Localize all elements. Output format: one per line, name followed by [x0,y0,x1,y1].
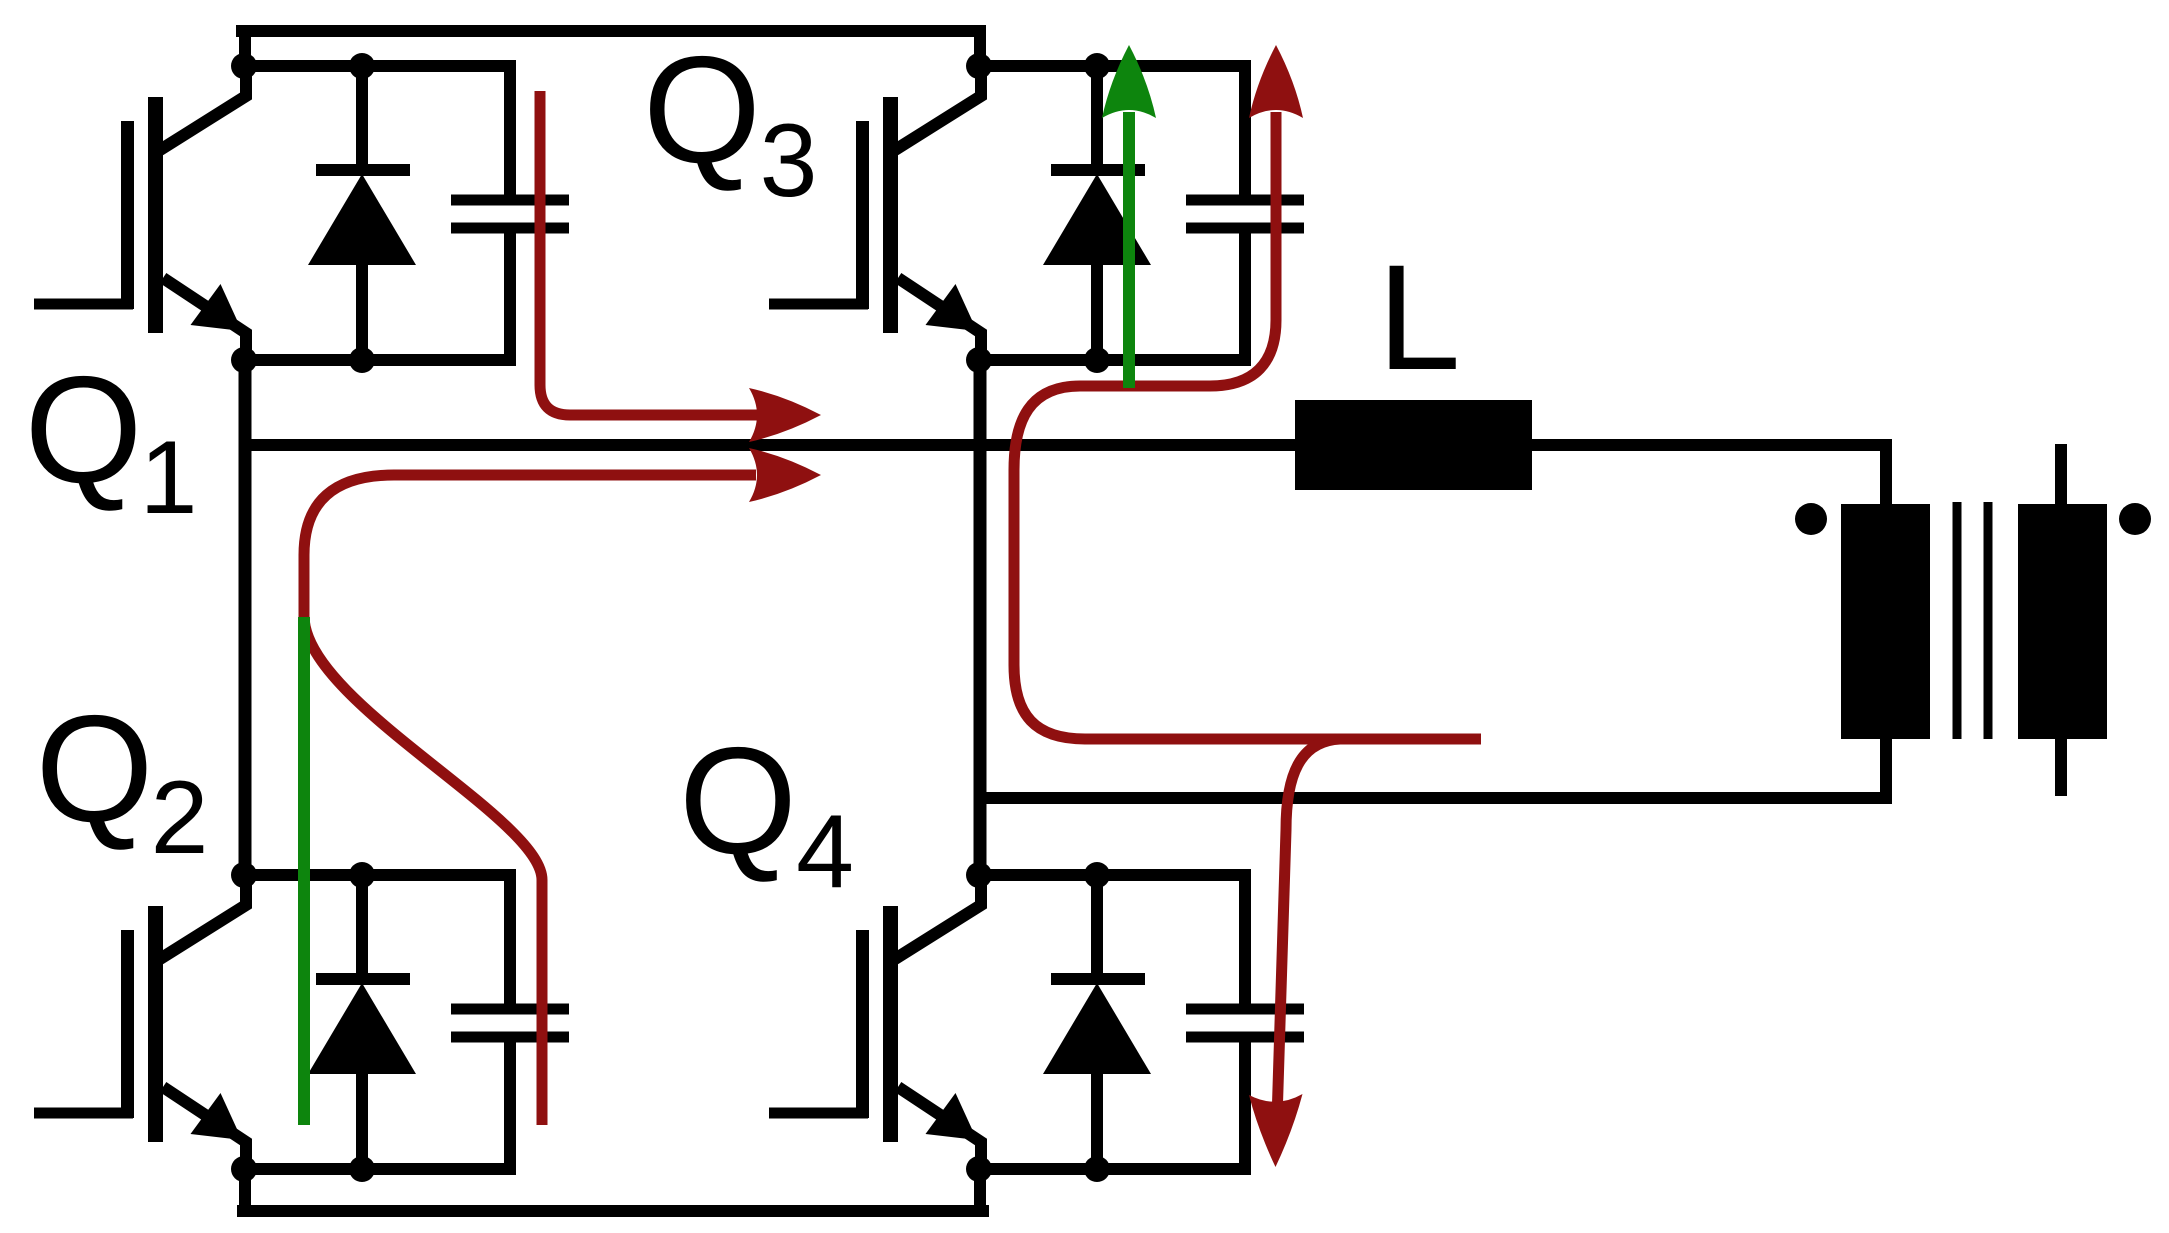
capacitor C2 [451,869,569,1175]
transformer core [1953,502,1962,739]
arrowhead: red down arrow [1249,1094,1303,1167]
svg-text:1: 1 [140,420,198,536]
svg-text:Q: Q [24,345,142,515]
arrowhead: green up arrow [1102,45,1156,118]
capacitor C3 [1186,60,1304,366]
wire: top rail stub to Q3 collector [974,31,986,66]
wire: top DC rail [236,25,986,37]
wire: secondary bottom lead [2055,739,2067,796]
wire: inductor to transformer primary top [1532,445,1886,504]
svg-text:Q: Q [679,716,797,886]
current path: red S-curve through C2 [304,616,542,1125]
svg-text:Q: Q [35,684,153,854]
node rails of Q4 cell [966,862,1245,1182]
transformer secondary phase dot [2119,503,2151,535]
wire: left bridge leg (node A) [239,360,252,875]
svg-text:L: L [1377,233,1460,401]
current path: red through C1 to node A output [540,91,764,415]
capacitor C4 [1186,869,1304,1175]
current path: red big loop from transformer up through C3 [1014,112,1481,739]
wire: bottom rail stub to Q4 emitter [974,1170,986,1211]
diode D1 [308,60,416,366]
arrowhead: red right arrow (lower) [749,448,821,502]
current path: red from node A leg to output (lower arrow) [304,475,756,617]
diode D4 [1043,869,1151,1175]
transistor Q2 [34,869,246,1175]
node rails of Q1 cell [231,53,510,373]
current path: green through Q2 leg [298,617,310,1125]
wire: bottom DC rail [237,1205,989,1217]
wire: bottom rail stub to Q2 emitter [239,1169,251,1211]
wire: top rail stub to Q1 collector [239,31,251,66]
transformer primary phase dot [1795,503,1827,535]
capacitor C1 [451,60,569,366]
diode D3 [1043,60,1151,366]
svg-text:2: 2 [151,760,209,876]
transistor Q3 [769,60,981,366]
wire: output node A to inductor [245,439,1295,451]
node rails of Q3 cell [966,53,1245,373]
arrowhead: red up arrow [1249,45,1303,118]
wire: node B to transformer primary bottom [980,739,1886,798]
arrowhead: red right arrow (upper) [749,388,821,442]
inductor L [1295,400,1532,490]
current path: red branch down through C4 [1278,739,1341,1104]
wire: secondary top lead [2055,444,2067,504]
transformer secondary winding [2018,504,2107,739]
transistor Q4 [769,869,981,1175]
wire: right bridge leg (node B) [974,360,987,876]
svg-text:Q: Q [643,25,761,195]
svg-text:4: 4 [796,794,854,910]
diode D2 [308,869,416,1175]
node rails of Q2 cell [231,862,510,1182]
transformer primary winding [1841,504,1930,739]
current path: green up through D3 [1123,112,1135,388]
svg-text:3: 3 [760,103,818,219]
transistor Q1 [34,60,246,366]
